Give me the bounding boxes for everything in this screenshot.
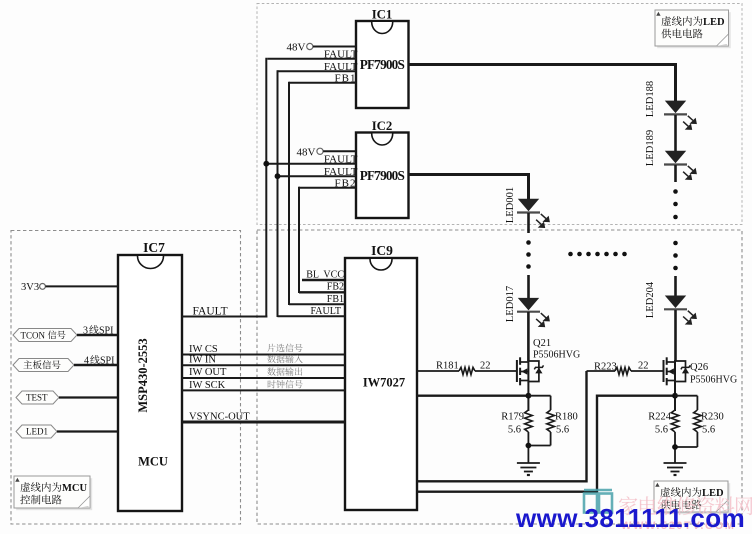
op-amp/regulator IC1 PF7900S [356, 8, 409, 109]
wire IC2 output to LED string [409, 175, 529, 200]
wire FAULT to IC2 pin 3 [278, 166, 358, 178]
svg-text:3V3: 3V3 [21, 282, 39, 293]
svg-text:R179: R179 [501, 412, 524, 423]
wire IC9 to Q21 source node [417, 395, 528, 397]
LED001 [505, 187, 549, 227]
svg-text:48V: 48V [297, 147, 316, 159]
input flag LED1 [16, 425, 118, 438]
svg-text:22: 22 [480, 361, 491, 372]
pin BL_VCC of IC9 [302, 270, 345, 281]
junction node [672, 444, 678, 450]
svg-text:PF7900S: PF7900S [360, 57, 405, 72]
pin FB2 of IC9 [299, 282, 345, 293]
input flag TEST [16, 391, 118, 404]
wire IC1 output to LED string (48V rail) [409, 65, 676, 102]
resistor R180 5.6 [528, 396, 577, 446]
junction node Q21 source [526, 393, 532, 399]
wire Q26 source down [674, 382, 676, 411]
resistor R179 5.6 [501, 410, 532, 436]
dashed box: MCU control circuit (left) [11, 231, 241, 525]
junction node Q26 source [672, 393, 678, 399]
dashed box: LED supply circuit (bottom right) [257, 230, 742, 524]
wire [674, 115, 677, 151]
wire LED204 to Q26 drain [674, 310, 677, 361]
LED189 [645, 130, 696, 179]
svg-text:3: 3 [83, 326, 88, 337]
note: dashed area is MCU control circuit [14, 476, 92, 510]
svg-text:R230: R230 [701, 412, 724, 423]
svg-text:LED017: LED017 [505, 286, 516, 322]
label data output [267, 367, 275, 375]
svg-text:TEST: TEST [26, 393, 48, 403]
svg-text:MCU: MCU [138, 455, 168, 469]
svg-text:IW CS: IW CS [189, 344, 218, 355]
wire LED017 to Q21 drain [527, 312, 530, 361]
svg-text:IC1: IC1 [372, 8, 393, 22]
svg-text:5.6: 5.6 [556, 425, 569, 436]
dotted row: more strings between [568, 252, 627, 257]
dotted continuation (right string, upper) [673, 189, 678, 219]
LED204 [645, 281, 696, 324]
svg-text:5.6: 5.6 [702, 425, 715, 436]
transistor Q26 P5506HVG [664, 357, 738, 385]
junction node [526, 443, 532, 449]
input flag mainboard signal [13, 359, 118, 372]
resistor R181 22 (gate drive) [417, 361, 517, 375]
svg-text:Q21: Q21 [533, 338, 551, 349]
wire [527, 213, 530, 233]
op-amp/regulator IC2 PF7900S [356, 119, 409, 218]
svg-text:FB1: FB1 [327, 294, 344, 305]
wire IW SCK (MCU to IC9) [182, 380, 345, 391]
wire: FB1 vertical (IC1 FB1 to IC9 FB1) [288, 82, 290, 305]
resistor R224 5.6 [648, 410, 679, 436]
wire VSYNC-OUT (MCU to IC9) [182, 411, 345, 422]
svg-text:IC2: IC2 [372, 119, 393, 133]
transistor Q21 P5506HVG [517, 338, 580, 385]
watermark logo (cyan) [584, 490, 612, 513]
wire FAULT to IC1 pin 3 [278, 61, 358, 73]
svg-text:IW SCK: IW SCK [189, 380, 226, 391]
svg-text:LED189: LED189 [645, 130, 656, 166]
svg-text:LED001: LED001 [505, 187, 516, 223]
dotted continuation (right string, lower) [673, 241, 678, 271]
wire rail IC9 to Q26 source sense [417, 491, 597, 493]
note: dashed area is LED power supply (bottom) [654, 481, 730, 514]
label chip-select signal [267, 344, 275, 352]
svg-text:PF7900S: PF7900S [360, 168, 405, 183]
wire IW OUT (MCU to IC9) [182, 367, 345, 378]
pin FAULT of IC9 [278, 306, 346, 317]
watermark text (red CJK outline) [619, 496, 752, 515]
svg-text:LED204: LED204 [645, 281, 656, 318]
wire: FAULT bus vertical (MCU FAULT to IC1/IC2) [265, 58, 267, 318]
label 4-wire SPI [84, 355, 114, 366]
note: dashed area is LED power supply [655, 10, 731, 48]
MCU IC7 MSP430-2553 [118, 240, 182, 511]
svg-text:MSP430-2553: MSP430-2553 [136, 338, 150, 412]
svg-text:48V: 48V [287, 42, 306, 54]
resistor R230 5.6 [675, 396, 724, 447]
junction at IC2 FAULT pin3 [275, 173, 281, 179]
dotted continuation (left string) [526, 240, 531, 269]
wire to ground [527, 432, 529, 463]
wire from rail up to Q26 source node [597, 396, 675, 493]
svg-text:IW IN: IW IN [189, 355, 216, 366]
LED017 [505, 286, 549, 326]
svg-text:LED188: LED188 [645, 81, 656, 117]
svg-text:IW7027: IW7027 [363, 376, 405, 390]
dashed box: LED supply circuit (top) [257, 4, 742, 225]
controller IC9 IW7027 [345, 243, 417, 510]
junction at IC2 FAULT pin2 [263, 161, 269, 167]
label 3-wire SPI [83, 325, 113, 336]
svg-text:5.6: 5.6 [655, 425, 668, 436]
wire FAULT to IC1 pin 2 [267, 48, 357, 60]
wire to ground [674, 432, 676, 463]
svg-text:R224: R224 [648, 412, 672, 423]
svg-text:www.3811111.com: www.3811111.com [515, 503, 745, 533]
label clock signal [268, 380, 276, 388]
wire [674, 276, 677, 296]
node 48V (IC2 pin 1) [297, 147, 356, 159]
node 3V3 [21, 282, 118, 293]
pin FB1 of IC9 [289, 294, 345, 305]
svg-text:LED: LED [703, 17, 725, 28]
svg-text:IC7: IC7 [143, 240, 165, 255]
wire FB1 to IC1 pin 4 [289, 72, 357, 84]
svg-text:IC9: IC9 [371, 243, 393, 258]
label data input [267, 355, 275, 363]
wire FAULT from MCU [182, 306, 267, 318]
svg-text:FB2: FB2 [327, 282, 344, 293]
svg-text:22: 22 [638, 361, 649, 372]
ground (Q21 sense) [517, 462, 540, 464]
wire [674, 165, 677, 182]
svg-text:TCON: TCON [21, 331, 46, 341]
wire: FAULT bus vertical (IC9 FAULT to IC1/IC2 pin3) [277, 70, 279, 317]
svg-text:R180: R180 [555, 412, 578, 423]
svg-text:4: 4 [84, 356, 89, 367]
svg-text:SPI: SPI [99, 326, 113, 337]
svg-text:R181: R181 [436, 361, 459, 372]
wire IW CS (MCU to IC9) [182, 344, 345, 355]
svg-text:IW OUT: IW OUT [189, 367, 227, 378]
svg-text:P5506HVG: P5506HVG [533, 350, 580, 361]
svg-text:5.6: 5.6 [508, 425, 521, 436]
wire rail IC9 to R223/Q26 gate [417, 371, 587, 481]
svg-text:MCU: MCU [62, 483, 87, 494]
wire IW IN (MCU to IC9) [182, 355, 345, 366]
ground (Q26 sense) [664, 462, 687, 464]
wire [527, 275, 530, 299]
wire Q21 source down [527, 382, 529, 411]
svg-text:SPI: SPI [100, 356, 114, 367]
wire FAULT to IC2 pin 2 [267, 153, 357, 165]
input flag TCON signal [13, 329, 118, 342]
svg-text:LED1: LED1 [26, 427, 48, 437]
LED188 [645, 81, 696, 129]
svg-text:Q26: Q26 [690, 362, 708, 373]
node 48V (IC1 pin 1) [287, 42, 356, 54]
svg-text:P5506HVG: P5506HVG [690, 375, 737, 386]
wire FB2 to IC2 pin 4 [299, 177, 357, 189]
wire: FB2 vertical (IC2 FB2 to IC9 FB2) [298, 187, 300, 293]
resistor R223 22 (gate drive) [587, 361, 664, 375]
